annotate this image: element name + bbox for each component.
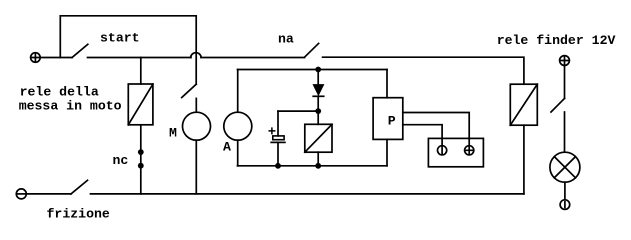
terminal bottom (bar circle) (560, 200, 570, 210)
bottom rail wire (91, 193, 524, 195)
wire P box bottom to inner box bottom (386, 139, 388, 165)
battery box (428, 138, 483, 166)
wire - terminal to frizione switch (26, 193, 71, 195)
wire loop bypassing start switch (60, 16, 196, 84)
wire + terminal to finder contact switch (564, 65, 566, 98)
svg-text:rele finder 12V: rele finder 12V (497, 33, 616, 48)
terminal - (battery minus, bottom left) (16, 189, 26, 199)
svg-text:P: P (388, 114, 396, 129)
relay coil rele finder 12V (510, 84, 537, 125)
svg-text:A: A (223, 140, 231, 155)
svg-text:frizione: frizione (47, 206, 110, 221)
wire diode node to relay K1 (317, 111, 319, 124)
svg-text:nc: nc (113, 153, 129, 168)
switch start (blade) (72, 44, 88, 57)
svg-text:start: start (100, 31, 140, 46)
wire motor M to bottom rail (195, 140, 197, 194)
battery terminal + (plus circle) (465, 146, 474, 155)
node dot capacitor bottom (275, 163, 281, 169)
motor M (183, 112, 211, 140)
switch finder contact (blade) (551, 98, 565, 112)
switch M branch (blade) (182, 84, 197, 97)
wire switch to lamp (564, 112, 566, 152)
relay K1 (inner relay coil) (305, 124, 332, 152)
wire from + terminal to start switch (40, 57, 72, 59)
wire relay K1 to inner box bottom (317, 152, 319, 166)
wire P output upper to battery + (403, 113, 469, 146)
terminal + (lamp branch top) (560, 56, 570, 66)
node dot diode top (315, 67, 321, 73)
node dot diode bottom (315, 108, 321, 114)
battery terminal - (bar circle) (438, 146, 447, 155)
node dot relay bottom (315, 163, 321, 169)
wire start node down to relay coil (140, 58, 142, 85)
wire ammeter to inner box bottom (237, 140, 239, 166)
svg-text:messa in moto: messa in moto (19, 99, 122, 114)
wire from start switch to hop (88, 57, 192, 59)
wire hop to na switch (201, 57, 305, 59)
wire rele finder to bottom rail (523, 125, 525, 194)
inner box left wire to ammeter (237, 70, 239, 113)
wire diode node to capacitor (278, 110, 318, 112)
relay coil rele della messa in moto (128, 84, 153, 125)
inner box right wire to P box (386, 70, 388, 98)
wire P output lower to battery - (403, 125, 442, 146)
wire switch to motor M (195, 98, 197, 112)
wire relay coil to nc contact (140, 125, 142, 194)
switch frizione (blade) (71, 180, 88, 194)
svg-text:rele della: rele della (20, 85, 99, 100)
nc contact node dot lower (138, 163, 144, 169)
svg-text:na: na (278, 32, 294, 47)
wire lamp to bottom terminal (564, 182, 566, 200)
diode D1 (313, 70, 324, 112)
capacitor C1 polarized (269, 111, 285, 166)
svg-text:M: M (169, 126, 177, 141)
terminal + (battery plus, top left) (31, 53, 41, 63)
wire na switch to rele finder branch corner (323, 57, 524, 84)
ammeter A (224, 112, 252, 140)
inner box top line (238, 69, 388, 71)
lamp (550, 152, 580, 182)
nc contact node dot upper (138, 149, 144, 155)
regulator P box (373, 98, 403, 140)
inner box bottom line (238, 165, 388, 167)
switch na (blade) (305, 43, 319, 57)
wire hop over M branch (191, 53, 201, 58)
